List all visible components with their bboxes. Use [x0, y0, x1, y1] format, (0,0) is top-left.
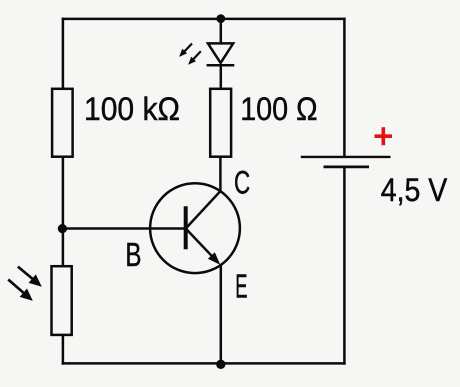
- svg-text:100 kΩ: 100 kΩ: [84, 91, 180, 127]
- LDR light arrow 1: [18, 267, 42, 287]
- LDR photoresistor body: [52, 266, 72, 335]
- svg-text:E: E: [235, 268, 247, 305]
- transistor Q1 base bar: [184, 206, 188, 249]
- svg-text:C: C: [234, 165, 250, 201]
- wire left rail lower: [62, 334, 65, 365]
- transistor Q1 circle: [150, 183, 240, 273]
- wire left rail upper: [62, 18, 65, 90]
- wire base: [63, 227, 186, 230]
- battery plus sign: [375, 127, 393, 145]
- svg-text:100 Ω: 100 Ω: [240, 91, 317, 127]
- wire right rail lower: [343, 167, 346, 365]
- svg-text:4,5 V: 4,5 V: [381, 172, 448, 208]
- wire left rail middle: [62, 155, 65, 268]
- wire bottom rail: [62, 362, 346, 365]
- wire right rail upper: [343, 18, 346, 157]
- battery positive plate: [301, 156, 391, 158]
- wire top rail: [62, 18, 346, 21]
- LED light arrow 1: [179, 44, 192, 57]
- transistor Q1 emitter stroke with arrow: [186, 229, 221, 265]
- svg-text:B: B: [125, 236, 141, 273]
- battery negative plate: [324, 165, 370, 168]
- transistor Q1 collector stroke: [186, 191, 221, 228]
- wire LED cathode to resistor: [220, 65, 223, 90]
- node junction dot bottom: [216, 360, 225, 369]
- resistor 100 kOhm body: [52, 89, 73, 157]
- wire collector: [219, 155, 222, 192]
- node junction dot top: [216, 14, 225, 23]
- wire LED anode: [220, 19, 223, 45]
- LED light arrow 2: [188, 51, 201, 65]
- resistor 100 Ohm body: [210, 89, 231, 157]
- node junction dot base divider: [58, 224, 67, 233]
- LDR light arrow 2: [8, 280, 33, 301]
- LED D1 symbol: [207, 43, 235, 65]
- wire emitter: [220, 264, 223, 364]
